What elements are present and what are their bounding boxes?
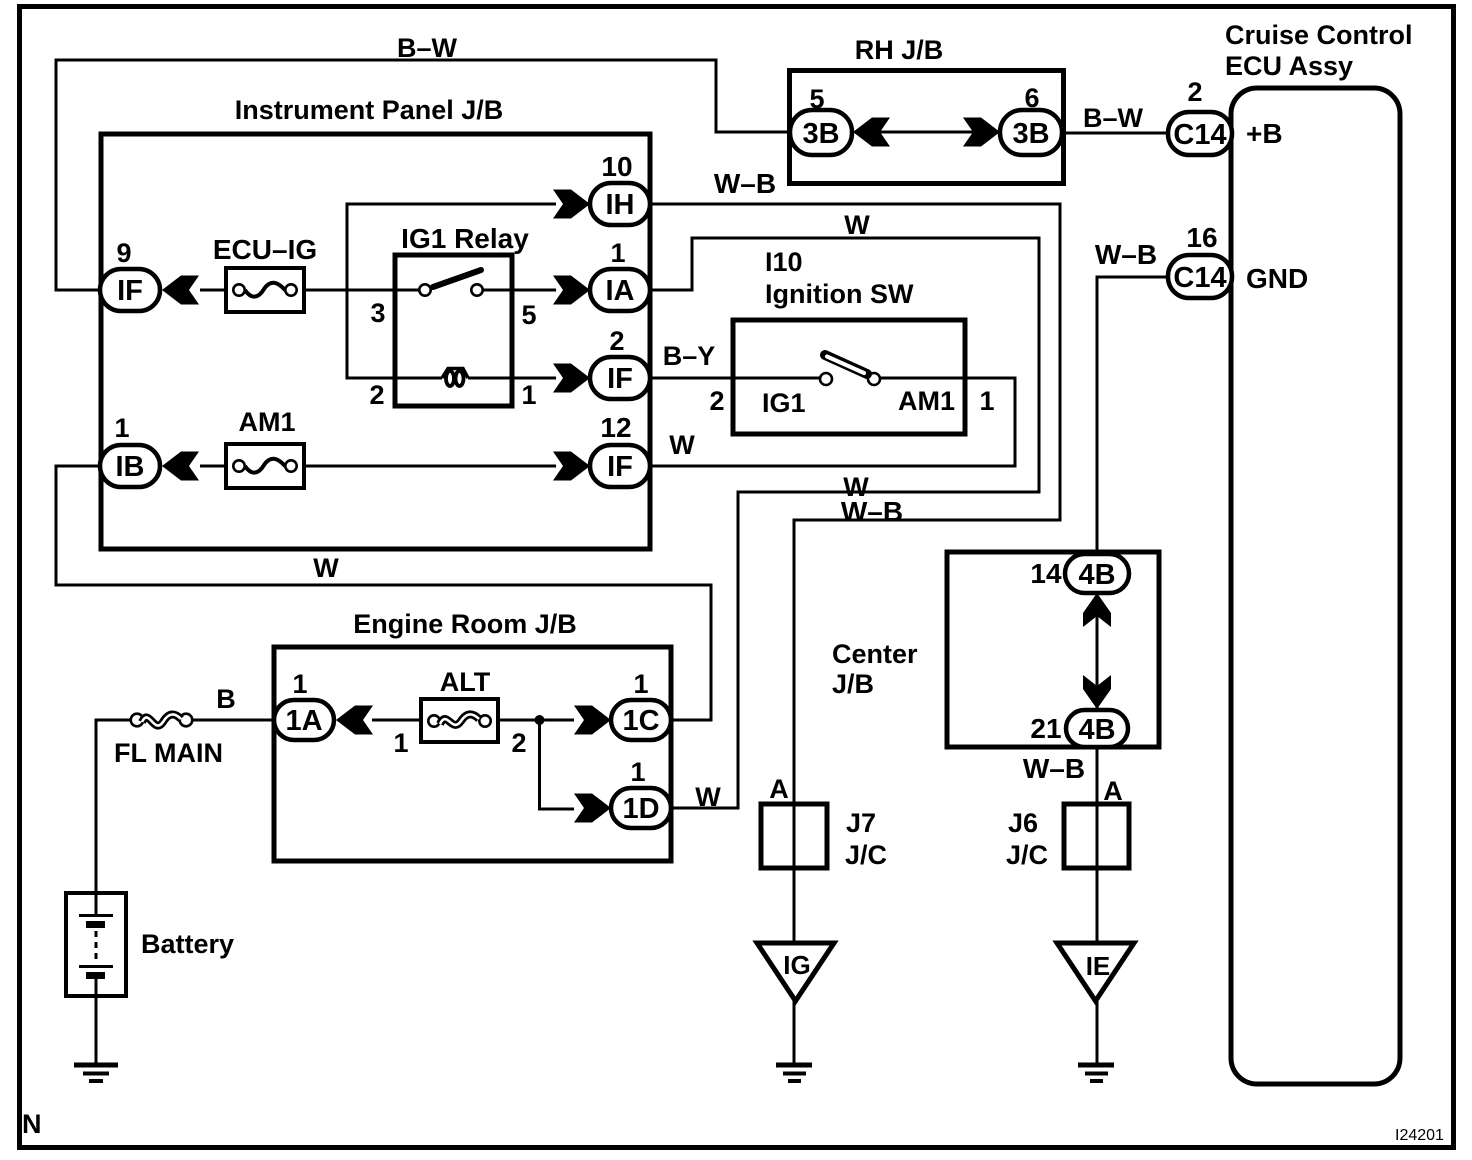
wire: between 4B connectors: [1096, 592, 1099, 710]
Center J/B box: [947, 552, 1159, 747]
svg-text:12: 12: [600, 412, 631, 443]
IG ground triangle: [757, 943, 834, 1001]
Instrument Panel J/B box: [101, 134, 650, 549]
wire W-B: 21 4B down through J6 J/C to IE: [1096, 747, 1099, 943]
wire: IF9 arrow to ECU-IG fuse: [200, 289, 225, 292]
svg-text:AM1: AM1: [898, 386, 955, 416]
connector 1 1A oval: [274, 700, 334, 740]
wire: RH J/B internal between 3B connectors: [870, 131, 975, 134]
AM1 fuse box: [226, 444, 304, 488]
wire: relay coil right lead to IF2 arrow: [468, 377, 556, 380]
svg-text:J/C: J/C: [1006, 840, 1048, 870]
J7 J/C box: [761, 804, 827, 868]
svg-text:1: 1: [630, 757, 645, 787]
svg-text:IH: IH: [606, 189, 635, 221]
wire: relay coil left lead: [393, 377, 442, 380]
svg-text:5: 5: [521, 300, 536, 330]
svg-text:2: 2: [511, 728, 526, 758]
svg-text:FL MAIN: FL MAIN: [114, 738, 223, 768]
svg-text:B–W: B–W: [397, 33, 458, 63]
IG ground symbol: [776, 1065, 812, 1081]
FL MAIN fusible link: [131, 714, 193, 727]
svg-text:3: 3: [370, 298, 385, 328]
wire: branch to 1D arrow: [540, 720, 575, 809]
Cruise Control ECU Assy box: [1231, 88, 1400, 1084]
svg-text:3B: 3B: [802, 118, 839, 150]
arrow at 1 1D: [574, 794, 611, 823]
arrow at 9 IF: [162, 276, 199, 305]
wire: AM1 fuse to IF12 arrow: [305, 465, 556, 468]
connector 6 3B oval: [1000, 110, 1062, 155]
svg-text:Instrument Panel J/B: Instrument Panel J/B: [235, 95, 504, 125]
wire W: IB(1) down and over to engine room 1C: [56, 466, 711, 720]
wire W: ignition AM1 to IF(12): [650, 378, 1015, 466]
ignition switch lever: [825, 355, 867, 374]
svg-text:2: 2: [1187, 77, 1202, 107]
wire B-Y: IF(2) to ignition switch IG1 contact: [650, 377, 820, 380]
IE ground symbol: [1078, 1065, 1114, 1081]
svg-text:IA: IA: [606, 275, 635, 307]
svg-text:IB: IB: [116, 451, 145, 483]
connector 5 3B oval: [790, 110, 852, 155]
svg-text:IG1 Relay: IG1 Relay: [401, 223, 529, 254]
arrow at 6 3B: [963, 118, 1000, 147]
svg-text:Cruise Control: Cruise Control: [1225, 20, 1413, 50]
svg-text:21: 21: [1030, 713, 1061, 744]
svg-text:Engine Room J/B: Engine Room J/B: [353, 609, 577, 639]
svg-text:W: W: [844, 210, 870, 240]
svg-text:1: 1: [292, 669, 307, 699]
connector 1 IA oval: [590, 269, 650, 311]
svg-text:IF: IF: [607, 451, 633, 483]
ignition switch contact circles: [820, 373, 832, 385]
svg-text:I24201: I24201: [1395, 1127, 1444, 1144]
arrow at 2 IF: [553, 364, 590, 393]
svg-text:IG: IG: [783, 950, 810, 980]
arrow at 1 IB: [162, 452, 199, 481]
ALT fusible link symbol: [428, 714, 490, 726]
wire B-W: battery feed from IF(9) up over to RH J/B 5 3B: [56, 60, 792, 290]
connector 16 C14 oval: [1168, 255, 1232, 298]
svg-text:J7: J7: [846, 808, 876, 838]
svg-text:1D: 1D: [622, 793, 659, 825]
wire: battery minus to ground: [95, 978, 98, 1064]
svg-text:W–B: W–B: [841, 496, 903, 527]
wire: relay pin2 coil to IH(10): [347, 204, 556, 378]
svg-text:GND: GND: [1246, 263, 1308, 294]
svg-text:1: 1: [521, 380, 536, 410]
wire: relay contact to IA arrow: [482, 289, 556, 292]
svg-text:W–B: W–B: [1095, 239, 1157, 270]
wire: IG triangle tip to ground: [793, 1001, 796, 1064]
arrow at 10 IH: [553, 190, 590, 219]
svg-text:3B: 3B: [1012, 118, 1049, 150]
svg-text:ECU–IG: ECU–IG: [213, 234, 317, 265]
relay contact circles: [419, 284, 430, 295]
wire B: battery to FL MAIN: [96, 720, 131, 914]
connector 1 IB oval: [100, 445, 160, 487]
IE ground triangle: [1057, 943, 1134, 1001]
svg-text:1: 1: [610, 238, 625, 268]
connector 10 IH oval: [590, 183, 650, 225]
svg-text:Ignition SW: Ignition SW: [765, 279, 914, 309]
svg-text:1A: 1A: [285, 705, 322, 737]
arrow up in center J/B: [1083, 593, 1111, 627]
svg-text:RH J/B: RH J/B: [855, 35, 944, 65]
svg-text:2: 2: [369, 380, 384, 410]
svg-text:B: B: [216, 684, 236, 714]
connector 21 4B oval: [1066, 710, 1128, 747]
battery ground: [74, 1065, 118, 1081]
wire: ALT fuse to 1C arrow: [499, 719, 574, 722]
wire: 1A arrow to ALT fuse: [372, 719, 420, 722]
svg-text:W: W: [669, 430, 695, 460]
svg-text:1: 1: [114, 413, 129, 443]
connector 1 1D oval: [611, 788, 671, 828]
svg-text:J/C: J/C: [845, 840, 887, 870]
svg-text:4B: 4B: [1078, 714, 1115, 746]
wire W: IA(1) to engine room 1D: [650, 238, 1039, 808]
svg-text:W–B: W–B: [1023, 753, 1085, 784]
svg-text:2: 2: [709, 386, 724, 416]
svg-text:9: 9: [116, 238, 131, 268]
connector 9 IF oval: [100, 269, 160, 311]
relay coil: [442, 369, 468, 387]
RH J/B box: [790, 71, 1064, 184]
svg-text:J/B: J/B: [832, 669, 874, 699]
svg-text:B–W: B–W: [1083, 103, 1144, 133]
connector 12 IF oval: [590, 445, 650, 487]
svg-text:B–Y: B–Y: [663, 341, 716, 371]
connector 2 C14 oval: [1168, 112, 1232, 155]
battery box: [66, 893, 126, 996]
svg-text:I10: I10: [765, 247, 803, 277]
svg-text:C14: C14: [1173, 262, 1226, 294]
svg-text:IF: IF: [607, 363, 633, 395]
connector 2 IF oval: [590, 357, 650, 399]
arrow at 12 IF: [553, 452, 590, 481]
svg-text:W–B: W–B: [714, 168, 776, 199]
wire: FL MAIN to 1A: [192, 719, 274, 722]
arrow at 5 3B: [853, 118, 890, 147]
IG1 relay box: [395, 255, 512, 406]
svg-text:IG1: IG1: [762, 388, 806, 418]
svg-text:A: A: [1103, 776, 1123, 806]
connector 1 1C oval: [611, 700, 671, 740]
svg-text:IE: IE: [1086, 951, 1111, 981]
arrow down in center J/B: [1083, 675, 1111, 709]
svg-text:1: 1: [393, 728, 408, 758]
svg-text:J6: J6: [1008, 808, 1038, 838]
battery plates: [79, 916, 113, 976]
arrow at 1 IA: [553, 276, 590, 305]
ECU-IG fuse box: [226, 268, 304, 312]
wire W-B: IH(10) to J7 J/C and IG ground: [650, 204, 1060, 943]
svg-text:W: W: [313, 553, 339, 583]
svg-text:ECU Assy: ECU Assy: [1225, 51, 1353, 81]
svg-text:IF: IF: [117, 275, 143, 307]
svg-text:14: 14: [1030, 558, 1062, 589]
svg-text:ALT: ALT: [440, 667, 491, 697]
svg-text:4B: 4B: [1078, 559, 1115, 591]
svg-text:1: 1: [633, 669, 648, 699]
relay contact lever: [433, 270, 481, 287]
wire: IE triangle tip to ground: [1096, 1001, 1099, 1064]
ECU-IG fuse symbol: [233, 283, 296, 297]
svg-text:5: 5: [809, 84, 824, 114]
svg-text:AM1: AM1: [238, 407, 295, 437]
junction dot: [535, 715, 545, 725]
svg-text:Center: Center: [832, 639, 918, 669]
wire B-W: 6 3B to C14 +B: [1062, 132, 1172, 135]
svg-text:+B: +B: [1246, 118, 1283, 149]
svg-text:6: 6: [1024, 83, 1039, 113]
wire: ignition AM1 contact to box edge: [879, 377, 967, 380]
svg-text:W: W: [695, 782, 721, 812]
connector 14 4B oval: [1065, 554, 1129, 593]
svg-text:10: 10: [601, 151, 632, 182]
svg-text:C14: C14: [1173, 119, 1226, 151]
svg-text:N: N: [22, 1109, 42, 1139]
svg-text:1: 1: [979, 386, 994, 416]
AM1 fuse symbol: [233, 459, 296, 473]
svg-text:1C: 1C: [622, 705, 659, 737]
wire: ECU-IG fuse to relay contact: [305, 289, 419, 292]
wire: IB arrow to AM1 fuse: [200, 465, 225, 468]
I10 ignition switch box: [733, 320, 965, 434]
ALT fuse box: [421, 699, 498, 742]
svg-text:16: 16: [1186, 222, 1217, 253]
Engine Room J/B box: [274, 647, 671, 861]
svg-text:2: 2: [609, 326, 624, 356]
wire W-B: C14 GND down to center J/B 14 4B: [1097, 277, 1172, 554]
arrow at 1 1C: [574, 706, 611, 735]
svg-text:Battery: Battery: [141, 929, 234, 959]
J6 J/C box: [1064, 804, 1129, 868]
arrow at 1 1A: [336, 706, 373, 735]
svg-text:A: A: [769, 774, 789, 804]
